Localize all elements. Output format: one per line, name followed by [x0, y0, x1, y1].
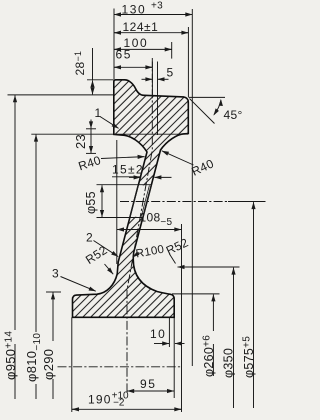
- svg-text:190+10−2: 190+10−2: [88, 390, 129, 408]
- 190 dim: [72, 408, 182, 410]
- 95 dim: [127, 390, 174, 392]
- dim text phi55: [84, 191, 98, 214]
- web lightening hole window (phi55) - unhatched: [131, 185, 151, 216]
- dim text phi350: [222, 348, 236, 378]
- phi810 dim line: [35, 135, 37, 332]
- hole far-side edge: [141, 185, 149, 216]
- R40 right leader: [162, 151, 194, 165]
- R52 left leader: [105, 264, 114, 274]
- svg-text:45°: 45°: [224, 108, 243, 122]
- dim text R52 left: [83, 243, 110, 267]
- svg-text:23: 23: [73, 134, 88, 149]
- ext right 124: [187, 27, 189, 98]
- svg-text:φ350: φ350: [222, 348, 236, 378]
- label 1 leader: [100, 117, 119, 129]
- dim text R40 right: [189, 156, 216, 178]
- dim text R100: [135, 244, 165, 261]
- dim text phi290: [41, 349, 56, 380]
- svg-text:10: 10: [150, 327, 166, 341]
- ext 100 right: [171, 42, 173, 59]
- 108 dim: [116, 140, 118, 264]
- hole centerline: [120, 201, 228, 203]
- ext left face top (130/124 dims): [113, 9, 115, 80]
- dim text phi575+5: [242, 336, 257, 378]
- axis centerline: [58, 366, 182, 368]
- svg-text:124±1: 124±1: [123, 20, 159, 34]
- dim text R52 right: [164, 235, 191, 257]
- dim 130: [114, 14, 192, 16]
- 45 deg chamfer indication: [189, 96, 225, 98]
- svg-text:φ290: φ290: [41, 349, 56, 380]
- label 2 leader: [94, 241, 119, 257]
- 45 deg arc arrowheads: [219, 99, 223, 106]
- 10 dim: [168, 318, 170, 347]
- web edges across hole window: [130, 185, 138, 217]
- thin extension / dimension line work: [8, 9, 266, 413]
- 15+-2 underline and arrows: [112, 176, 141, 178]
- R52 right leader: [170, 254, 176, 264]
- dim 5 arrows outside: [142, 78, 153, 80]
- 28-1 dim: line from text to flange-top tick: [92, 48, 94, 80]
- svg-text:1: 1: [95, 106, 102, 120]
- 23 dim: [90, 120, 92, 129]
- dim text phi260+6: [202, 335, 217, 377]
- R40 left leader: [101, 157, 145, 159]
- tread extension long: [8, 94, 114, 96]
- dim 65: [114, 66, 152, 68]
- svg-text:+3: +3: [151, 1, 163, 12]
- dim text phi950+14: [3, 331, 18, 380]
- label 3 leader: [61, 277, 96, 292]
- wheel center plane / web centerline / hub centerline: [127, 58, 152, 394]
- svg-text:15±2: 15±2: [112, 163, 144, 177]
- svg-text:2: 2: [86, 231, 93, 245]
- ext lines for 5 dim: [151, 62, 153, 96]
- dim 124: [114, 32, 188, 34]
- R100 leader: [133, 253, 139, 258]
- bore side faces below: [71, 317, 73, 412]
- dim text 23: [73, 134, 88, 149]
- svg-text:5: 5: [167, 66, 174, 80]
- svg-text:φ55: φ55: [84, 191, 98, 214]
- phi290 tick + dim line: [46, 291, 61, 293]
- ext right x192 full: [191, 9, 193, 366]
- phi55 dim: [97, 184, 152, 186]
- svg-text:130: 130: [122, 3, 147, 17]
- wheel cross-section body (rim + web + hub), hatched: [73, 80, 189, 317]
- phi260 ext + dim: [172, 293, 220, 295]
- rim bottom extension long: [31, 133, 188, 135]
- phi950 dim line: [14, 95, 16, 330]
- phi575 dim (arrow at hole centerline): [253, 202, 255, 209]
- phi575 extension solid part: [228, 201, 266, 203]
- dim text 28-1: [73, 51, 87, 76]
- dim 100: [114, 48, 172, 50]
- svg-text:65: 65: [116, 48, 133, 62]
- centerlines dash-dot: [58, 58, 229, 394]
- dim text R40 left: [77, 153, 103, 173]
- svg-text:3: 3: [52, 267, 59, 281]
- svg-text:95: 95: [140, 377, 157, 391]
- dim text phi810-10: [24, 333, 43, 382]
- phi350 ext + dim: [186, 266, 240, 268]
- dimension texts: [3, 1, 256, 409]
